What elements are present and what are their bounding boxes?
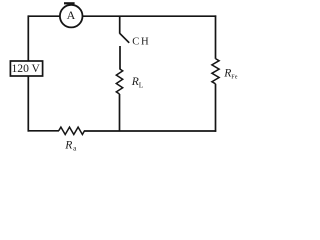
wire: top right segment (ammeter to top-right corner) (83, 15, 217, 17)
svg-text:CH: CH (132, 37, 150, 48)
wire: top left segment (left corner to ammeter) (28, 15, 60, 17)
ammeter A1 circle (60, 5, 83, 28)
svg-text:Ra: Ra (64, 138, 77, 152)
wire: bottom left segment (corner to resistor Ra) (28, 130, 60, 132)
resistor Ra (horizontal zigzag, bottom wire) (59, 127, 85, 134)
svg-text:A: A (67, 8, 76, 22)
wire: middle branch between resistor RL and bottom wire (119, 94, 121, 132)
resistor RL (vertical zigzag, middle branch) (116, 69, 122, 94)
svg-text:RL: RL (131, 75, 144, 89)
wire: bottom right segment (resistor Ra to bottom-right corner) (84, 130, 216, 132)
switch CH blade (open) (120, 33, 130, 43)
wire: left vertical (top corner down to bottom corner, passes under battery box) (27, 15, 29, 131)
voltage source box V1 (10, 61, 42, 76)
svg-text:RFe: RFe (223, 66, 238, 80)
wire: middle branch between switch and resistor RL (119, 46, 121, 69)
ammeter top tangent bar (64, 2, 75, 4)
wire: right vertical upper segment (215, 15, 217, 58)
svg-text:120 V: 120 V (11, 62, 40, 75)
resistor RFe (vertical zigzag, right branch) (212, 59, 219, 84)
wire: middle branch upper stub (top wire to switch) (119, 16, 121, 33)
wire: right vertical lower segment (215, 84, 217, 132)
